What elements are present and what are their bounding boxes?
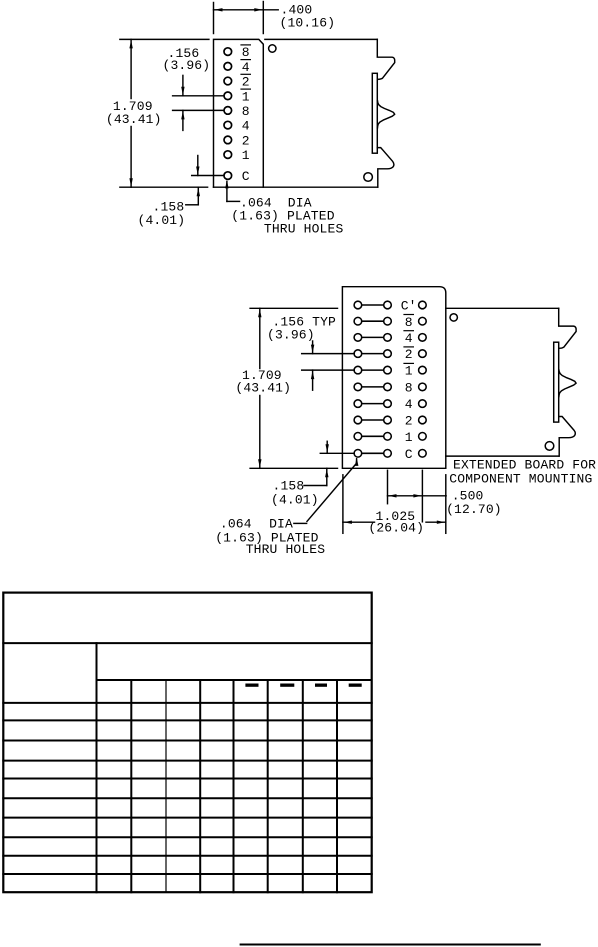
svg-text:(3.96): (3.96) [163, 58, 211, 73]
dimension .156 (3.96) pitch [163, 46, 224, 130]
dimension .500 (12.70) [388, 470, 502, 522]
svg-text:1: 1 [242, 148, 250, 163]
svg-text:8: 8 [405, 315, 413, 330]
dimension 1.709 (43.41) [106, 39, 209, 187]
dimension 1.709 (43.41) [235, 308, 337, 468]
svg-text:2: 2 [405, 414, 413, 429]
svg-text:EXTENDED BOARD FOR: EXTENDED BOARD FOR [453, 457, 596, 472]
right section top and bottom edges [446, 307, 559, 309]
dimension .400 (10.16) [214, 2, 336, 34]
svg-text:THRU HOLES: THRU HOLES [264, 221, 344, 236]
extended board left section [342, 287, 445, 469]
right edge profile with contact bumps [372, 39, 394, 187]
svg-text:1: 1 [405, 430, 413, 445]
svg-text:C': C' [401, 299, 417, 314]
svg-text:(12.70): (12.70) [446, 502, 502, 517]
svg-text:C: C [405, 447, 413, 462]
bottom rule [241, 944, 540, 946]
leader .064 DIA plated thru holes [225, 180, 343, 236]
terminal labels 8 4 2 1 (complement, overbar) 8 4 2 1 C [242, 45, 250, 184]
mounting hole top [269, 45, 276, 52]
mounting hole bottom [545, 442, 554, 451]
svg-text:4: 4 [405, 331, 413, 346]
svg-text:4: 4 [242, 119, 250, 134]
dimension .158 (4.01) [138, 156, 224, 228]
header dashes [245, 684, 361, 687]
svg-text:DIA: DIA [269, 516, 293, 531]
svg-text:4: 4 [242, 60, 250, 75]
svg-text:COMPONENT MOUNTING: COMPONENT MOUNTING [449, 472, 592, 487]
board top edge (main section) [265, 38, 377, 40]
leader .064 DIA plated thru holes [215, 457, 358, 557]
plated thru holes: 3 columns, 10 rows, link wires col1-col2 [354, 301, 426, 457]
svg-text:(4.01): (4.01) [138, 213, 186, 228]
svg-text:(43.41): (43.41) [235, 381, 291, 396]
svg-text:8: 8 [242, 104, 250, 119]
svg-text:(4.01): (4.01) [271, 493, 319, 508]
svg-text:THRU HOLES: THRU HOLES [246, 542, 326, 557]
mounting hole bottom [364, 173, 373, 182]
dimension 1.025 (26.04) [343, 475, 446, 536]
note: extended board for component mounting [449, 457, 596, 486]
board bottom edge [214, 186, 378, 188]
svg-text:(3.96): (3.96) [267, 327, 315, 342]
svg-text:.158: .158 [273, 479, 305, 494]
svg-text:(10.16): (10.16) [280, 16, 336, 31]
svg-text:8: 8 [242, 45, 250, 60]
svg-text:1: 1 [242, 89, 250, 104]
board outline: terminal column [214, 39, 264, 187]
svg-text:(26.04): (26.04) [368, 521, 424, 536]
svg-text:2: 2 [405, 347, 413, 362]
svg-text:4: 4 [405, 397, 413, 412]
svg-text:C: C [242, 169, 250, 184]
right edge profile with contact bumps [554, 308, 576, 456]
svg-text:1: 1 [405, 364, 413, 379]
dimension .158 (4.01) [271, 441, 354, 507]
plated thru holes column [224, 48, 232, 180]
svg-text:(43.41): (43.41) [106, 112, 162, 127]
svg-text:8: 8 [405, 381, 413, 396]
svg-text:2: 2 [242, 134, 250, 149]
mounting hole top [450, 314, 457, 321]
dimension .156 TYP (3.96) [267, 315, 354, 391]
svg-text:2: 2 [242, 75, 250, 90]
svg-text:.064: .064 [220, 516, 252, 531]
